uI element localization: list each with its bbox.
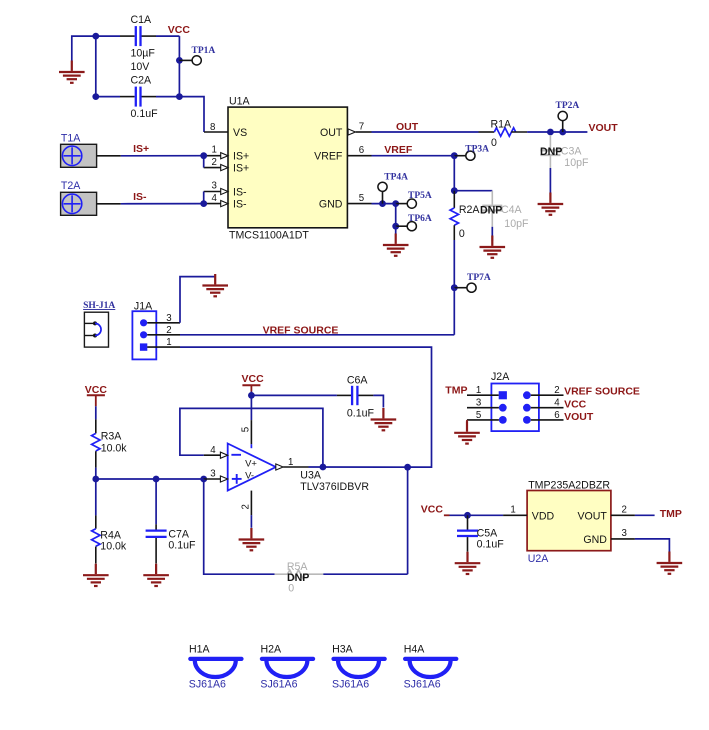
pin 6 J2A <box>531 410 564 421</box>
svg-text:4: 4 <box>554 398 560 409</box>
svg-text:TMP: TMP <box>660 508 682 520</box>
wire R1A to VOUT <box>527 131 587 133</box>
capacitor C6A <box>337 374 375 419</box>
svg-text:3: 3 <box>622 528 627 539</box>
svg-text:VCC: VCC <box>564 399 587 411</box>
svg-text:10.0k: 10.0k <box>100 541 127 553</box>
wire GND top-left <box>72 36 96 60</box>
svg-text:10V: 10V <box>131 61 151 73</box>
terminal T1A <box>61 133 121 168</box>
svg-text:VCC: VCC <box>85 384 108 396</box>
testpoint TP3A <box>454 144 489 160</box>
node TP6A junction <box>392 223 399 230</box>
svg-text:6: 6 <box>359 145 364 156</box>
node C2A right junction <box>176 93 183 100</box>
svg-text:VDD: VDD <box>532 511 555 523</box>
terminal T2A <box>61 180 121 215</box>
node TP5A junction <box>392 200 399 207</box>
wire feedback loop <box>180 408 323 467</box>
wire VCC to U2A pin1 <box>450 514 504 516</box>
node TP1A junction <box>176 57 183 64</box>
wire TP6A to ground <box>395 226 397 233</box>
svg-text:3: 3 <box>212 181 217 192</box>
wire OUT net <box>372 131 479 133</box>
svg-text:7: 7 <box>359 121 364 132</box>
svg-text:U2A: U2A <box>528 553 550 565</box>
svg-text:SJ61A6: SJ61A6 <box>260 679 297 691</box>
pin 5 J2A <box>467 410 499 421</box>
capacitor C2A <box>120 75 158 121</box>
wire left vertical to C2A <box>95 36 97 97</box>
wire VCC junction <box>250 392 252 396</box>
svg-text:H1A: H1A <box>189 644 211 656</box>
svg-text:TP6A: TP6A <box>408 214 432 224</box>
ground G11 (under C5A) <box>455 552 481 574</box>
ground G3 (under C4A) <box>480 236 506 258</box>
ground G12 (U2A GND) <box>657 552 683 574</box>
pin 2 J2A <box>531 385 564 396</box>
svg-text:IS-: IS- <box>133 191 147 203</box>
svg-text:OUT: OUT <box>396 121 419 133</box>
svg-text:5: 5 <box>476 410 481 421</box>
svg-text:TMP: TMP <box>445 384 467 396</box>
testpoint TP5A <box>396 191 432 208</box>
svg-text:C3A: C3A <box>561 145 583 157</box>
node C5A junction <box>464 512 471 519</box>
svg-text:1: 1 <box>212 145 217 156</box>
resistor R1A <box>479 118 528 149</box>
wire VREF SOURCE <box>180 334 454 336</box>
wire R5A left branch <box>204 479 275 574</box>
wire input row <box>96 478 204 480</box>
svg-text:IS+: IS+ <box>133 143 149 155</box>
svg-text:TP7A: TP7A <box>467 273 491 283</box>
svg-text:C1A: C1A <box>131 14 153 26</box>
node pin3 junction <box>200 476 207 483</box>
power VCC (R3A top) <box>85 384 108 407</box>
svg-text:U1A: U1A <box>229 96 251 108</box>
wire GND pin5 <box>372 203 396 205</box>
node R5A junction <box>404 464 411 471</box>
wire TP7A to VREF SOURCE row <box>453 288 455 335</box>
capacitor C7A <box>146 479 196 564</box>
svg-text:R1A: R1A <box>491 118 513 130</box>
svg-text:IS+: IS+ <box>233 163 249 175</box>
svg-text:1: 1 <box>510 504 515 515</box>
wire IS+ <box>121 155 204 157</box>
resistor R3A <box>92 419 128 467</box>
mount H1A <box>189 644 242 691</box>
ground G6 (under R4A) <box>83 564 109 586</box>
IC U1A TMCS1100A1DT <box>228 96 347 242</box>
svg-text:T2A: T2A <box>61 180 81 192</box>
svg-text:VREF: VREF <box>314 151 343 163</box>
svg-text:0: 0 <box>491 137 497 149</box>
svg-text:U3A: U3A <box>300 470 322 482</box>
capacitor C5A <box>457 515 504 551</box>
jumper SH-J1A <box>83 301 115 347</box>
svg-text:VOUT: VOUT <box>589 122 619 134</box>
svg-text:TP2A: TP2A <box>556 101 580 111</box>
capacitor C1A <box>120 14 156 73</box>
pin 6 VREF <box>314 145 371 163</box>
connector J2A <box>491 371 539 431</box>
wire C1A left <box>96 35 120 37</box>
pin 7 OUT <box>320 121 371 139</box>
svg-text:TP5A: TP5A <box>408 191 432 201</box>
wire IS- <box>121 203 204 205</box>
svg-text:TLV376IDBVR: TLV376IDBVR <box>300 481 369 493</box>
wire C6A to ground <box>373 395 383 407</box>
svg-text:IS-: IS- <box>233 199 247 211</box>
testpoint TP7A <box>454 273 491 292</box>
wire pin3 to ground <box>635 539 670 552</box>
wire TP5A down <box>395 204 397 227</box>
ground G1 (top-left) <box>59 61 85 83</box>
pin 2 IS+ <box>204 157 250 175</box>
svg-text:10pF: 10pF <box>564 157 589 169</box>
pin 8 VS <box>210 122 247 139</box>
wire R5A right <box>323 573 407 575</box>
svg-text:DNP: DNP <box>540 146 562 158</box>
svg-text:2: 2 <box>166 325 171 336</box>
testpoint TP4A <box>378 173 408 204</box>
svg-text:TMP235A2DBZR: TMP235A2DBZR <box>528 479 610 491</box>
svg-text:TP3A: TP3A <box>465 144 489 154</box>
svg-text:V+: V+ <box>245 459 257 470</box>
svg-text:10.0k: 10.0k <box>101 443 128 455</box>
svg-text:5: 5 <box>241 427 252 432</box>
wire R5A vertical right <box>407 467 409 574</box>
wire C3A to ground <box>549 168 551 193</box>
svg-text:OUT: OUT <box>320 127 343 139</box>
wire to pin 8 <box>179 97 204 132</box>
wire pin2 to ground <box>250 515 252 528</box>
testpoint TP6A <box>396 214 432 231</box>
wire J1A pin3 to ground <box>180 277 215 323</box>
svg-text:GND: GND <box>319 199 343 211</box>
svg-text:VOUT: VOUT <box>564 411 594 423</box>
testpoint TP1A <box>179 46 215 65</box>
svg-text:GND: GND <box>583 534 607 546</box>
ground G4 (under TP6A) <box>383 234 409 256</box>
pin 2 VOUT <box>577 504 634 522</box>
svg-text:1: 1 <box>288 457 293 468</box>
wire C1A right to VCC corner <box>156 35 179 37</box>
svg-text:VCC: VCC <box>421 504 444 516</box>
pin 1 IS+ <box>204 145 250 163</box>
wire VREF net <box>372 155 455 157</box>
op-amp U3A TLV376IDBVR <box>228 444 370 494</box>
wire C4A to ground <box>491 227 493 241</box>
svg-text:2: 2 <box>241 504 252 509</box>
wire J1A pin1 to output node <box>180 347 432 467</box>
resistor R5A (DNP) <box>275 561 324 595</box>
wire pin5 to ground <box>466 420 468 430</box>
svg-text:10µF: 10µF <box>131 48 156 60</box>
power VCC (op-amp) <box>242 373 265 392</box>
mount H4A <box>404 644 457 691</box>
pin 3 IS- <box>204 181 247 199</box>
node IS+ junction <box>200 152 207 159</box>
wire op-amp pin5 <box>250 395 252 420</box>
wire VCC vertical <box>178 36 180 97</box>
capacitor C4A (DNP) <box>480 191 529 230</box>
svg-text:0.1uF: 0.1uF <box>347 408 375 420</box>
pin 3 J2A <box>467 398 499 409</box>
node TP7A junction <box>451 284 458 291</box>
svg-text:DNP: DNP <box>287 572 309 584</box>
svg-text:0: 0 <box>459 228 465 240</box>
svg-text:VS: VS <box>233 127 247 139</box>
node TP4A junction <box>379 200 386 207</box>
svg-text:R2A: R2A <box>459 204 481 216</box>
node OUT junction TP2A <box>559 129 566 136</box>
IC U2A TMP235A2DBZR <box>527 479 611 565</box>
wire VCC to R3A <box>95 406 97 419</box>
svg-text:C6A: C6A <box>347 374 369 386</box>
svg-text:2: 2 <box>554 385 559 396</box>
testpoint TP2A <box>556 101 580 132</box>
ground G10 (J2A pin5) <box>454 421 480 443</box>
resistor R2A <box>450 191 480 240</box>
svg-text:10pF: 10pF <box>504 218 529 230</box>
wire R2A to TP7A <box>453 240 455 288</box>
svg-text:J2A: J2A <box>491 371 510 383</box>
svg-text:R5A: R5A <box>287 561 309 573</box>
svg-text:T1A: T1A <box>61 133 81 145</box>
ground G2 (under C3A) <box>538 193 564 215</box>
pin 1 J2A <box>467 385 499 396</box>
svg-text:4: 4 <box>212 193 218 204</box>
node VREF junction <box>451 152 458 159</box>
svg-text:IS+: IS+ <box>233 151 249 163</box>
wire C2A right <box>156 96 179 98</box>
pin 5 stub <box>241 420 252 448</box>
svg-text:6: 6 <box>554 410 559 421</box>
power VCC tick (U2A) <box>444 514 450 516</box>
svg-text:TP4A: TP4A <box>384 173 408 183</box>
node C7A junction <box>153 476 160 483</box>
svg-text:VREF: VREF <box>384 144 413 156</box>
svg-text:5: 5 <box>359 193 364 204</box>
node R3A/R4A junction <box>92 476 99 483</box>
pin 3 GND <box>583 528 635 546</box>
pin 2 stub to ground <box>241 491 252 515</box>
svg-text:R3A: R3A <box>101 431 123 443</box>
node VCC op-amp junction <box>248 392 255 399</box>
svg-text:0.1uF: 0.1uF <box>131 108 159 120</box>
svg-text:VCC: VCC <box>242 373 265 385</box>
connector J1A <box>132 301 180 360</box>
wire R3A to row <box>95 468 97 479</box>
svg-text:SH-J1A: SH-J1A <box>83 301 115 311</box>
svg-text:SJ61A6: SJ61A6 <box>404 679 441 691</box>
svg-text:TMCS1100A1DT: TMCS1100A1DT <box>229 230 309 242</box>
node C2A left junction <box>92 93 99 100</box>
wire output <box>309 466 432 468</box>
node IS- junction <box>200 200 207 207</box>
svg-text:C2A: C2A <box>131 75 153 87</box>
svg-text:8: 8 <box>210 122 215 133</box>
node feedback junction <box>320 464 327 471</box>
pin 1 output <box>276 457 309 470</box>
svg-text:SJ61A6: SJ61A6 <box>189 679 226 691</box>
svg-text:4: 4 <box>210 445 216 456</box>
svg-text:VREF SOURCE: VREF SOURCE <box>263 325 339 337</box>
svg-text:2: 2 <box>212 157 217 168</box>
capacitor C3A (DNP) <box>540 135 589 169</box>
mount H2A <box>260 644 313 691</box>
wire pin4-pin3 <box>203 192 205 204</box>
pin 4 IS- <box>204 193 247 211</box>
node VCC top junction <box>92 33 99 40</box>
pin 4 inverting input <box>204 445 228 458</box>
pin 5 GND <box>319 193 372 211</box>
wire C2A left <box>96 96 120 98</box>
pin 4 J2A <box>531 398 564 409</box>
resistor R4A <box>92 479 127 564</box>
svg-text:3: 3 <box>166 313 171 324</box>
ground G8 (under C6A) <box>371 408 397 430</box>
svg-text:0.1uF: 0.1uF <box>477 538 505 550</box>
svg-text:V-: V- <box>245 470 254 481</box>
svg-text:3: 3 <box>476 398 481 409</box>
wire pin1-pin2 <box>203 156 205 168</box>
svg-text:H3A: H3A <box>332 644 354 656</box>
svg-text:SJ61A6: SJ61A6 <box>332 679 369 691</box>
pin 3 non-inverting input <box>204 469 228 483</box>
svg-text:VOUT: VOUT <box>577 511 607 523</box>
pin 1 VDD <box>503 504 554 522</box>
pin 8 stub <box>204 131 228 133</box>
wire pin2 to TMP <box>635 514 655 516</box>
wire VCC to C6A <box>251 394 337 396</box>
svg-text:C4A: C4A <box>501 204 523 216</box>
ground G9 (op-amp pin2) <box>239 528 265 550</box>
ground G5 (J1A pin3) <box>202 274 228 296</box>
svg-text:IS-: IS- <box>233 187 247 199</box>
svg-text:0.1uF: 0.1uF <box>168 540 196 552</box>
mount H3A <box>332 644 385 691</box>
svg-text:VCC: VCC <box>168 24 191 36</box>
node OUT junction C3A <box>547 129 554 136</box>
ground G7 (under C7A) <box>143 564 169 586</box>
svg-text:DNP: DNP <box>480 204 502 216</box>
wire VREF down <box>453 156 455 191</box>
svg-text:1: 1 <box>166 337 171 348</box>
node C4A junction <box>451 187 458 194</box>
svg-text:H2A: H2A <box>261 644 283 656</box>
svg-text:TP1A: TP1A <box>192 46 216 56</box>
svg-text:H4A: H4A <box>404 644 426 656</box>
svg-text:3: 3 <box>210 469 215 480</box>
svg-text:VREF SOURCE: VREF SOURCE <box>564 386 640 398</box>
svg-text:2: 2 <box>622 504 627 515</box>
wire to C4A <box>454 190 492 192</box>
svg-text:1: 1 <box>476 385 481 396</box>
